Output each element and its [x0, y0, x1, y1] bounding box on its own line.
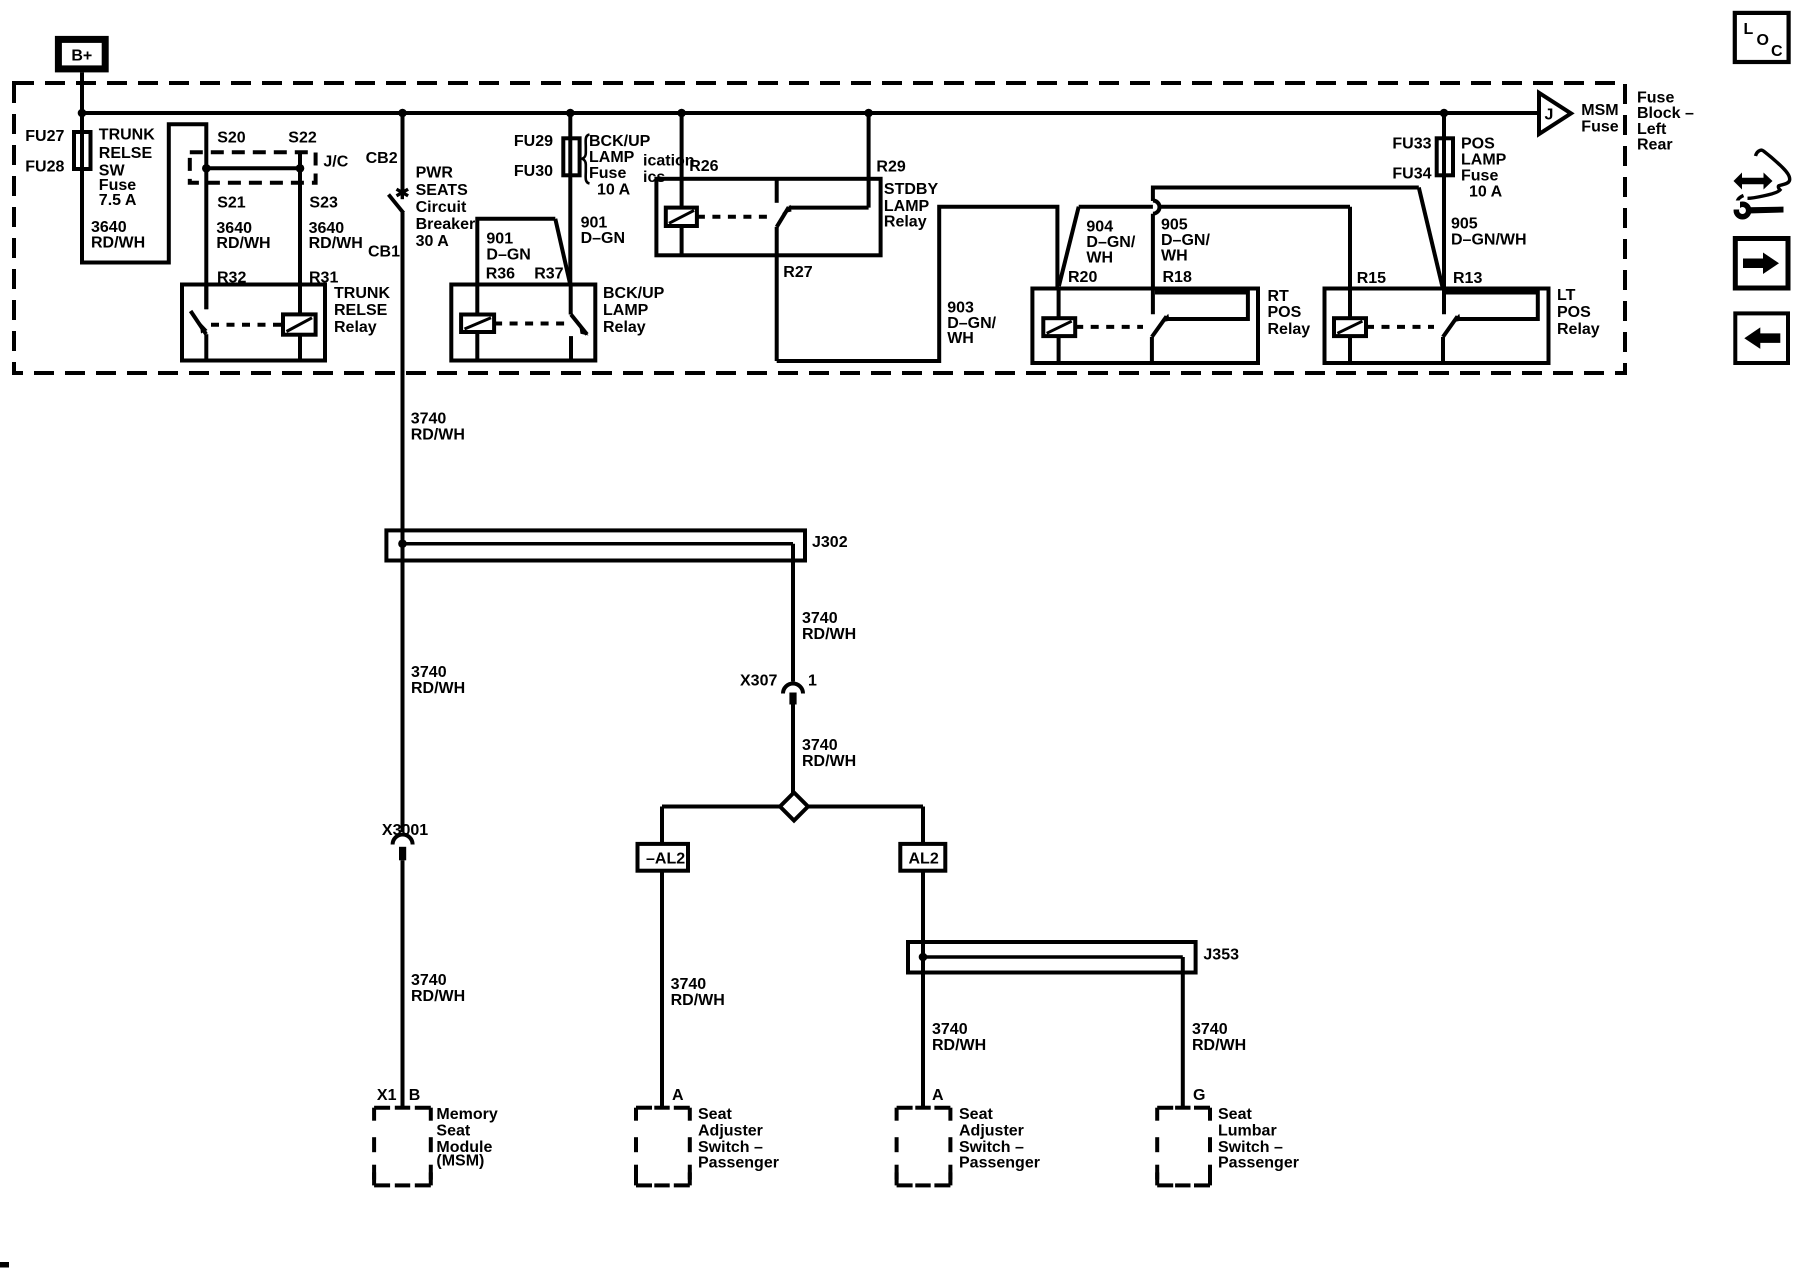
wire S21 to R32 [204, 168, 208, 309]
label 3640 RD/WH (S21) [216, 220, 270, 252]
wire hop over 904 wire [1153, 201, 1160, 214]
svg-text:3740: 3740 [932, 1021, 968, 1038]
wire 905 D-GN/WH link R18 to R13 [1153, 186, 1443, 288]
svg-text:R13: R13 [1453, 270, 1482, 287]
wire AL2 down through J353 [921, 871, 925, 1108]
label BCK/UP LAMP Relay [603, 285, 665, 336]
svg-text:FU33: FU33 [1392, 136, 1431, 153]
svg-text:X1: X1 [377, 1087, 397, 1104]
svg-text:X307: X307 [740, 673, 777, 690]
connector box Seat Adjuster Switch - Passenger (right) [897, 1108, 951, 1186]
svg-text:Fuse: Fuse [1581, 119, 1618, 136]
svg-text:R20: R20 [1068, 269, 1097, 286]
fuse FU33/FU34 POS LAMP 10A [1392, 136, 1453, 183]
fuse FU29/FU30 BCK/UP LAMP 10A [514, 133, 580, 180]
inline connector X307 pin 1 [740, 673, 817, 705]
svg-text:R15: R15 [1357, 270, 1386, 287]
off-page connector J to MSM Fuse [1539, 93, 1571, 134]
Fuse Block - Left Rear dashed border [14, 83, 1625, 373]
svg-text:J: J [1545, 107, 1554, 124]
node: bus at CB2 [398, 109, 407, 118]
svg-text:Relay: Relay [1268, 321, 1311, 338]
svg-text:Memory: Memory [436, 1106, 497, 1123]
label 3740 RD/WH (CB1 output) [411, 411, 465, 444]
svg-text:J353: J353 [1203, 946, 1239, 963]
svg-text:AL2: AL2 [909, 851, 939, 868]
brace [582, 135, 589, 184]
dashed actuation link (STDBY) [697, 215, 770, 219]
label 905 D-GN/WH (right) [1451, 216, 1527, 249]
label 3740 RD/WH (col3) [932, 1021, 986, 1054]
svg-text:1: 1 [808, 673, 817, 690]
svg-text:R27: R27 [783, 264, 812, 281]
svg-text:FU29: FU29 [514, 133, 553, 150]
svg-text:Relay: Relay [334, 319, 377, 336]
svg-text:903: 903 [947, 299, 974, 316]
wire -AL2 down to Seat Adjuster Switch [660, 871, 664, 1108]
svg-text:D–GN/: D–GN/ [1161, 232, 1210, 249]
label 904 D-GN/WH [1086, 219, 1135, 267]
svg-text:C: C [1771, 43, 1783, 60]
fixed contact stub (STDBY) [775, 179, 779, 203]
label Memory Seat Module (MSM) [436, 1106, 497, 1169]
svg-text:(MSM): (MSM) [436, 1153, 484, 1170]
wire B+ down to bus [80, 72, 84, 113]
label 3740 RD/WH (above MSM) [411, 972, 465, 1005]
wire splice to AL2 [808, 807, 923, 844]
relay BCK/UP LAMP [451, 285, 595, 361]
svg-text:10 A: 10 A [597, 181, 631, 198]
svg-text:LAMP: LAMP [884, 198, 930, 215]
svg-text:3740: 3740 [802, 610, 838, 627]
svg-text:FU27: FU27 [25, 128, 64, 145]
circuit breaker CB1/CB2 PWR SEATS 30 A [389, 113, 409, 213]
stray mark bottom-left [0, 1262, 9, 1268]
svg-text:D–GN/WH: D–GN/WH [1451, 232, 1527, 249]
svg-text:A: A [932, 1087, 944, 1104]
wire J353 to Seat Lumbar Switch [1181, 957, 1185, 1108]
wire FU33 feed down to R13 [1442, 113, 1446, 314]
stub S22 [298, 154, 302, 168]
svg-text:FU28: FU28 [25, 159, 64, 176]
switch pivot to case (LT POS) [1441, 337, 1445, 363]
label Seat Lumbar Switch - Passenger [1218, 1106, 1299, 1171]
svg-text:LAMP: LAMP [1461, 152, 1507, 169]
svg-text:PWR: PWR [416, 165, 454, 182]
coil (LT POS) R15 [1334, 318, 1366, 363]
label TRUNK RELSE Relay [334, 285, 390, 336]
svg-text:TRUNK: TRUNK [99, 127, 155, 144]
svg-text:RD/WH: RD/WH [671, 992, 725, 1009]
node: bus at R29 [864, 109, 873, 118]
svg-text:BCK/UP: BCK/UP [603, 285, 665, 302]
svg-text:WH: WH [947, 330, 974, 347]
label 3740 RD/WH (col4) [1192, 1021, 1246, 1054]
switch arm (LT POS) [1443, 314, 1461, 337]
relay LT POS box [1325, 289, 1549, 364]
LOC box [1735, 13, 1789, 62]
label ication / ics (cut text) [643, 153, 695, 186]
switch arm (RT POS) [1152, 314, 1170, 337]
dashed actuation link (BCK/UP) [494, 322, 566, 326]
svg-text:R26: R26 [689, 158, 718, 175]
svg-text:POS: POS [1557, 304, 1591, 321]
wire R18 stub down [1151, 214, 1155, 315]
svg-text:901: 901 [581, 215, 608, 232]
svg-text:S21: S21 [217, 194, 246, 211]
wire 904 D-GN/WH link R20 to R15 [1079, 207, 1350, 319]
svg-text:Passenger: Passenger [698, 1155, 779, 1172]
svg-text:30 A: 30 A [416, 233, 450, 250]
svg-text:D–GN: D–GN [486, 247, 530, 264]
svg-text:RT: RT [1268, 288, 1290, 305]
svg-text:G: G [1193, 1087, 1205, 1104]
svg-text:FU34: FU34 [1392, 166, 1431, 183]
svg-text:904: 904 [1086, 219, 1113, 236]
svg-text:RELSE: RELSE [99, 145, 153, 162]
svg-text:RD/WH: RD/WH [411, 680, 465, 697]
label 903 D-GN/WH [947, 299, 996, 347]
switch arm (TRUNK RELSE relay) [191, 311, 208, 334]
pin R37 stub [569, 285, 573, 315]
svg-text:D–GN: D–GN [581, 230, 625, 247]
svg-text:S23: S23 [309, 194, 338, 211]
connector J353 [908, 942, 1239, 973]
wire J302 to X307 [791, 544, 795, 682]
svg-text:Fuse: Fuse [1637, 90, 1674, 107]
wire left column (3740 RD/WH) J302 to X3001 [401, 544, 405, 832]
node S20 [202, 164, 211, 173]
label 3740 RD/WH (left col) [411, 664, 465, 697]
svg-text:RD/WH: RD/WH [411, 988, 465, 1005]
splice diamond [780, 793, 808, 821]
switch pivot to case (RT POS) [1150, 337, 1154, 363]
node: bus at R26 [677, 109, 686, 118]
label BCK/UP LAMP Fuse 10 A [589, 133, 651, 199]
label R29 STDBY LAMP Relay [876, 159, 938, 231]
svg-text:RD/WH: RD/WH [216, 235, 270, 252]
B+ battery positive terminal [58, 39, 105, 69]
nav arrow left box [1735, 313, 1788, 363]
label 901 D-GN (FU30 output) [581, 215, 625, 248]
svg-text:RD/WH: RD/WH [411, 427, 465, 444]
label MSM Fuse [1581, 102, 1618, 136]
wire R27 pivot down through case [775, 227, 779, 361]
svg-text:7.5 A: 7.5 A [99, 192, 137, 209]
nav arrow right box [1735, 239, 1788, 289]
connector box Memory Seat Module (MSM) [374, 1108, 431, 1186]
terminal -AL2 [638, 844, 689, 871]
label 3740 RD/WH (below X307) [802, 737, 856, 770]
svg-text:Relay: Relay [603, 319, 646, 336]
node: J353 tap [919, 953, 928, 962]
svg-text:Seat: Seat [436, 1123, 470, 1140]
node: bus at B+ [78, 109, 87, 118]
switch pivot line to case [204, 334, 208, 360]
wire CB1 output down (3740 RD/WH) [401, 213, 405, 544]
wire switch to R29 [789, 113, 869, 208]
label 3740 RD/WH (J302 output) [802, 610, 856, 643]
svg-text:POS: POS [1461, 136, 1495, 153]
connector box Seat Adjuster Switch - Passenger (left) [636, 1108, 690, 1186]
svg-text:FU30: FU30 [514, 163, 553, 180]
svg-text:MSM: MSM [1581, 102, 1618, 119]
svg-text:POS: POS [1268, 304, 1302, 321]
label 3640 RD/WH (S23) [309, 220, 363, 252]
svg-text:Adjuster: Adjuster [959, 1123, 1024, 1140]
wire R26 from bus down to coil [680, 113, 684, 208]
svg-text:WH: WH [1086, 250, 1113, 267]
svg-text:Switch –: Switch – [959, 1139, 1024, 1156]
bus bar from B+ to MSM fuse triangle [80, 111, 1541, 115]
label Seat Adjuster Switch - Passenger (left) [698, 1106, 779, 1171]
label PWR SEATS Circuit Breaker 30 A [416, 165, 476, 250]
bent contact path to R18 (RT POS) [1155, 293, 1248, 320]
junction connector J/C (S20/S21/S22/S23) [190, 152, 349, 183]
svg-text:R18: R18 [1163, 269, 1192, 286]
svg-text:ication: ication [643, 153, 695, 170]
wire X307 to splice [791, 705, 795, 795]
inline connector X3001 [393, 835, 413, 861]
fuse FU27/FU28 TRUNK RELSE SW 7.5A [25, 128, 90, 176]
wire 904 D-GN/WH diagonal to R20 [1059, 207, 1079, 286]
terminal AL2 [900, 844, 945, 871]
svg-text:LAMP: LAMP [589, 149, 635, 166]
label TRUNK RELSE SW Fuse 7.5 A [99, 127, 155, 210]
wire FU29 feed down to BCK/UP relay [568, 113, 572, 285]
svg-text:Passenger: Passenger [959, 1155, 1040, 1172]
svg-text:Block –: Block – [1637, 105, 1694, 122]
svg-text:3740: 3740 [671, 976, 707, 993]
svg-text:STDBY: STDBY [884, 181, 939, 198]
svg-text:Rear: Rear [1637, 136, 1673, 153]
label 3740 RD/WH (-AL2 col) [671, 976, 725, 1009]
dashed actuation link (RT POS) [1075, 325, 1143, 329]
svg-text:A: A [672, 1087, 684, 1104]
bent contact path to R13 (LT POS) [1446, 293, 1538, 320]
label 901 D-GN (loop) [486, 231, 530, 264]
svg-text:R36: R36 [486, 266, 515, 283]
svg-text:TRUNK: TRUNK [334, 285, 390, 302]
svg-text:905: 905 [1451, 216, 1478, 233]
coil (BCK/UP relay) R36 [461, 285, 494, 361]
label 905 D-GN/WH (left) [1161, 217, 1210, 265]
label Seat Adjuster Switch - Passenger (right) [959, 1106, 1040, 1171]
node: J302 tap [398, 539, 407, 548]
svg-text:LT: LT [1557, 287, 1576, 304]
label RT POS Relay [1268, 288, 1311, 338]
svg-text:3740: 3740 [802, 737, 838, 754]
svg-text:S22: S22 [288, 130, 317, 147]
wire 901 D-GN loop to R36 [477, 219, 570, 285]
svg-text:RD/WH: RD/WH [91, 234, 145, 251]
coil (STDBY relay) R26 [666, 208, 697, 256]
svg-text:BCK/UP: BCK/UP [589, 133, 651, 150]
svg-text:Left: Left [1637, 121, 1667, 138]
nav icon: arrows and wrench [1727, 150, 1790, 217]
svg-text:B+: B+ [71, 48, 92, 65]
node: bus at FU33 [1440, 109, 1449, 118]
wire bus through fuse FU27/FU28 down [80, 113, 84, 265]
node S22 [296, 164, 305, 173]
svg-text:CB2: CB2 [366, 150, 398, 167]
connector J302 [386, 530, 847, 560]
svg-text:Relay: Relay [1557, 321, 1600, 338]
svg-text:Fuse: Fuse [1461, 168, 1498, 185]
svg-text:901: 901 [486, 231, 513, 248]
svg-text:WH: WH [1161, 248, 1188, 265]
svg-text:Switch –: Switch – [698, 1139, 763, 1156]
wire S23 to R31 [298, 168, 302, 314]
svg-text:Seat: Seat [959, 1106, 993, 1123]
switch arm (BCK/UP relay) [571, 315, 589, 336]
svg-text:905: 905 [1161, 217, 1188, 234]
label Fuse Block - Left Rear [1637, 90, 1694, 154]
svg-text:L: L [1744, 21, 1754, 38]
svg-text:CB1: CB1 [368, 244, 400, 261]
svg-text:J302: J302 [812, 534, 848, 551]
wire link S20-S22 inside J/C [206, 166, 300, 170]
svg-text:3740: 3740 [1192, 1021, 1228, 1038]
relay RT POS box [1032, 289, 1258, 364]
svg-text:Adjuster: Adjuster [698, 1123, 763, 1140]
connector box Seat Lumbar Switch - Passenger [1157, 1108, 1210, 1186]
wire X3001 to MSM [401, 860, 405, 1107]
svg-text:3740: 3740 [411, 664, 447, 681]
svg-text:O: O [1757, 32, 1769, 49]
svg-text:B: B [409, 1087, 421, 1104]
wire 3640 RD/WH routing loop to S20 [82, 124, 206, 262]
pin R32 stub (fixed contact) [204, 285, 208, 310]
svg-text:3740: 3740 [411, 411, 447, 428]
svg-text:R37: R37 [534, 266, 563, 283]
svg-text:RD/WH: RD/WH [309, 235, 363, 252]
relay STDBY LAMP box [656, 179, 880, 256]
svg-text:RD/WH: RD/WH [802, 753, 856, 770]
svg-text:–AL2: –AL2 [646, 851, 685, 868]
svg-text:10 A: 10 A [1469, 184, 1503, 201]
label 3640 RD/WH (fuse output) [91, 219, 145, 252]
label POS LAMP Fuse 10 A [1461, 136, 1507, 201]
switch arm (STDBY relay) [777, 205, 792, 227]
svg-text:Breaker: Breaker [416, 216, 476, 233]
svg-text:D–GN/: D–GN/ [1086, 234, 1135, 251]
svg-text:Relay: Relay [884, 214, 927, 231]
svg-text:Passenger: Passenger [1218, 1155, 1299, 1172]
svg-text:Lumbar: Lumbar [1218, 1123, 1277, 1140]
wire 903 D-GN/WH route R27 to R20 [777, 207, 1058, 361]
svg-text:SEATS: SEATS [416, 182, 468, 199]
svg-text:3740: 3740 [411, 972, 447, 989]
coil (TRUNK RELSE relay) R31 [283, 314, 316, 360]
node: bus at FU29 [566, 109, 575, 118]
svg-text:3640: 3640 [91, 219, 127, 236]
svg-text:RD/WH: RD/WH [1192, 1037, 1246, 1054]
wire splice to -AL2 [662, 807, 780, 844]
svg-text:R29: R29 [876, 159, 905, 176]
svg-text:RELSE: RELSE [334, 302, 388, 319]
relay TRUNK RELSE [182, 285, 325, 361]
label LT POS Relay [1557, 287, 1600, 338]
svg-text:Seat: Seat [1218, 1106, 1252, 1123]
dashed actuation link (LT POS) [1366, 325, 1434, 329]
svg-text:Circuit: Circuit [416, 199, 467, 216]
switch lower stub to case [569, 336, 573, 360]
coil (RT POS) R20 [1043, 289, 1075, 364]
svg-text:J/C: J/C [323, 154, 348, 171]
dashed actuation link (TRUNK RELSE) [211, 323, 283, 327]
svg-text:RD/WH: RD/WH [802, 626, 856, 643]
svg-text:RD/WH: RD/WH [932, 1037, 986, 1054]
svg-text:Seat: Seat [698, 1106, 732, 1123]
svg-text:Switch –: Switch – [1218, 1139, 1283, 1156]
svg-text:Fuse: Fuse [589, 165, 626, 182]
svg-text:LAMP: LAMP [603, 302, 649, 319]
svg-text:S20: S20 [217, 130, 246, 147]
